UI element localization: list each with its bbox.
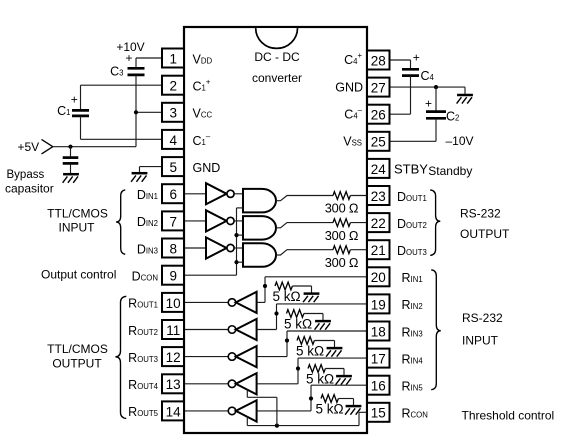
svg-text:22: 22 bbox=[371, 216, 386, 231]
svg-text:INPUT: INPUT bbox=[59, 221, 96, 235]
svg-text:RS-232: RS-232 bbox=[460, 207, 501, 221]
svg-text:11: 11 bbox=[166, 323, 180, 338]
svg-text:5: 5 bbox=[169, 160, 177, 175]
svg-text:+5V: +5V bbox=[18, 140, 40, 154]
svg-text:Standby: Standby bbox=[428, 164, 472, 178]
svg-text:5 kΩ: 5 kΩ bbox=[284, 317, 312, 332]
svg-text:STBY: STBY bbox=[394, 162, 428, 177]
svg-text:28: 28 bbox=[371, 53, 386, 68]
svg-text:16: 16 bbox=[371, 379, 386, 394]
svg-text:7: 7 bbox=[169, 214, 177, 229]
svg-text:24: 24 bbox=[371, 162, 387, 177]
svg-text:–10V: –10V bbox=[446, 134, 474, 148]
svg-text:converter: converter bbox=[252, 71, 302, 85]
svg-text:27: 27 bbox=[371, 81, 386, 96]
svg-text:13: 13 bbox=[166, 377, 181, 392]
svg-text:+: + bbox=[125, 51, 132, 65]
svg-text:10: 10 bbox=[166, 296, 181, 311]
svg-text:GND: GND bbox=[193, 161, 221, 175]
svg-text:300 Ω: 300 Ω bbox=[325, 201, 359, 216]
svg-text:TTL/CMOS: TTL/CMOS bbox=[47, 342, 108, 356]
svg-text:INPUT: INPUT bbox=[462, 333, 499, 347]
svg-text:6: 6 bbox=[169, 187, 177, 202]
svg-text:OUTPUT: OUTPUT bbox=[460, 227, 510, 241]
svg-text:25: 25 bbox=[371, 135, 386, 150]
svg-text:capasitor: capasitor bbox=[5, 182, 54, 196]
svg-text:+: + bbox=[425, 97, 432, 111]
svg-text:19: 19 bbox=[371, 297, 386, 312]
svg-text:Output control: Output control bbox=[41, 268, 116, 282]
svg-text:15: 15 bbox=[371, 406, 386, 421]
svg-text:18: 18 bbox=[371, 324, 386, 339]
svg-text:17: 17 bbox=[371, 352, 386, 367]
svg-text:5 kΩ: 5 kΩ bbox=[272, 289, 300, 304]
svg-text:2: 2 bbox=[169, 79, 177, 94]
svg-text:3: 3 bbox=[169, 106, 177, 121]
svg-text:5 kΩ: 5 kΩ bbox=[296, 344, 324, 359]
svg-text:300 Ω: 300 Ω bbox=[325, 228, 359, 243]
svg-text:26: 26 bbox=[371, 108, 386, 123]
svg-text:300 Ω: 300 Ω bbox=[325, 255, 359, 270]
svg-text:4: 4 bbox=[169, 133, 177, 148]
svg-text:+: + bbox=[71, 93, 78, 107]
svg-text:RS-232: RS-232 bbox=[462, 311, 503, 325]
svg-text:21: 21 bbox=[371, 243, 386, 258]
svg-text:5 kΩ: 5 kΩ bbox=[306, 372, 334, 387]
svg-text:12: 12 bbox=[166, 350, 181, 365]
svg-text:OUTPUT: OUTPUT bbox=[52, 357, 102, 371]
svg-text:Bypass: Bypass bbox=[7, 169, 45, 181]
svg-text:23: 23 bbox=[371, 189, 386, 204]
svg-text:5 kΩ: 5 kΩ bbox=[315, 402, 343, 417]
svg-text:1: 1 bbox=[169, 51, 177, 66]
svg-text:Threshold control: Threshold control bbox=[462, 409, 555, 423]
svg-text:20: 20 bbox=[371, 270, 386, 285]
svg-text:+: + bbox=[413, 51, 420, 65]
svg-text:9: 9 bbox=[169, 269, 177, 284]
svg-text:GND: GND bbox=[335, 81, 363, 95]
svg-text:DC - DC: DC - DC bbox=[254, 50, 300, 64]
svg-text:8: 8 bbox=[169, 241, 177, 256]
svg-text:14: 14 bbox=[166, 404, 182, 419]
svg-text:TTL/CMOS: TTL/CMOS bbox=[47, 207, 108, 221]
